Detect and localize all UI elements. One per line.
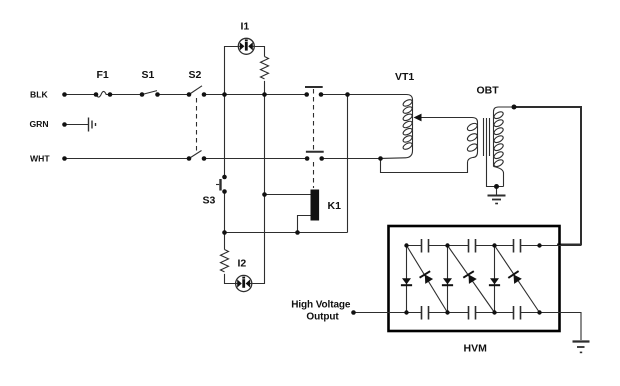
svg-text:Output: Output bbox=[306, 312, 339, 323]
node F1 left bbox=[94, 92, 99, 97]
node S1 left bbox=[140, 92, 145, 97]
autotransformer VT1 top lead bbox=[407, 95, 413, 101]
wire I1 right to resistor bbox=[255, 47, 265, 57]
capacitor C-top1 bbox=[422, 239, 429, 253]
ground OBT stub bbox=[496, 187, 498, 196]
wire BLK fuse to S1 bbox=[110, 94, 142, 96]
node I1 right junction bbox=[262, 92, 267, 97]
wire diagonal 1 bbox=[407, 246, 448, 313]
diode D5 vertical bbox=[490, 278, 499, 284]
resistor R-I2 bbox=[221, 250, 229, 272]
capacitor C-bot1 bbox=[422, 306, 429, 320]
node contact B left bbox=[305, 156, 310, 161]
ground GRN chassis bbox=[88, 118, 90, 132]
autotransformer VT1 axis bbox=[412, 100, 414, 151]
wire GRN lead bbox=[65, 124, 89, 126]
diode D6 diagonal bbox=[508, 271, 523, 285]
wire WHT after contact to VT1 bbox=[322, 158, 380, 160]
diode D4 diagonal bbox=[463, 271, 478, 284]
diode D1 vertical bbox=[402, 278, 411, 284]
wire resistor to BLK bbox=[264, 81, 266, 95]
wire BLK after contact bbox=[321, 94, 407, 96]
node bus left bbox=[222, 230, 227, 235]
node S1 right bbox=[155, 92, 160, 97]
wire resistor to I2 lamp bbox=[225, 274, 236, 284]
svg-text:F1: F1 bbox=[97, 69, 109, 81]
wire HVM top rail bbox=[407, 245, 582, 247]
capacitor C-top3 bbox=[514, 239, 521, 253]
wire HVM bottom rail to ground bbox=[540, 313, 582, 341]
ground HV return bars bbox=[573, 340, 590, 342]
node rail top 2 bbox=[445, 243, 449, 247]
wire HV feed thick from OBT to multiplier bbox=[514, 107, 581, 245]
wire S3 column to resistor I2 bbox=[224, 233, 226, 250]
svg-text:I2: I2 bbox=[238, 258, 247, 270]
node rail bottom 3 bbox=[492, 310, 496, 314]
wire diode column 2 bbox=[447, 246, 449, 313]
wiper arrow VT1 bbox=[414, 114, 422, 122]
wire K1 coil bottom feed bbox=[298, 216, 311, 233]
relay contact K1-B bar bbox=[306, 151, 324, 153]
node rail bottom 1 bbox=[404, 310, 408, 314]
lamp I2 bbox=[235, 275, 252, 291]
node HV output terminal bbox=[351, 310, 356, 315]
transformer OBT secondary bottom lead bbox=[494, 167, 504, 187]
autotransformer VT1 bottom lead bbox=[381, 151, 413, 159]
node BLK input bbox=[62, 92, 67, 97]
transformer OBT primary loops bbox=[466, 122, 478, 132]
svg-text:S3: S3 bbox=[203, 194, 216, 206]
transformer OBT primary bottom curve bbox=[473, 152, 478, 158]
node bus riser top bbox=[345, 92, 350, 97]
wire S3 column from BLK bbox=[224, 95, 226, 178]
wire bus riser to BLK bbox=[347, 95, 349, 233]
switch S2 gang linkage (dashed) bbox=[196, 98, 198, 154]
wire WHT segment left to S2b bbox=[65, 158, 190, 160]
node VT1 bottom bbox=[378, 156, 383, 161]
wire diode column 1 bbox=[406, 246, 408, 313]
capacitor C-bot3 bbox=[514, 306, 521, 320]
capacitor C-top2 bbox=[469, 239, 476, 253]
node contact B right bbox=[319, 156, 324, 161]
switch S1 bbox=[142, 91, 157, 95]
fuse F1 bbox=[96, 91, 110, 97]
pushbutton S3 bbox=[219, 179, 221, 191]
svg-text:WHT: WHT bbox=[30, 154, 50, 164]
relay K1 linkage (dashed) bbox=[313, 89, 315, 150]
node WHT input bbox=[62, 156, 67, 161]
node S2b right bbox=[202, 156, 207, 161]
autotransformer VT1 winding loops bbox=[402, 98, 413, 107]
wire BLK S1 to S2 bbox=[158, 94, 190, 96]
node S3 bottom bbox=[222, 189, 227, 194]
wire OBT core/shield to ground bbox=[487, 156, 504, 187]
svg-text:HVM: HVM bbox=[464, 343, 488, 355]
transformer OBT primary axis bbox=[477, 122, 479, 152]
node S3 top bbox=[222, 175, 227, 180]
node rail top 3 bbox=[492, 243, 496, 247]
svg-text:BLK: BLK bbox=[30, 90, 48, 100]
node OBT ground bbox=[494, 184, 499, 189]
wire diode column 3 bbox=[494, 246, 496, 313]
node K1 coil top bbox=[262, 192, 267, 197]
transformer OBT secondary top lead bbox=[494, 107, 515, 112]
svg-text:S2: S2 bbox=[189, 69, 202, 81]
svg-text:VT1: VT1 bbox=[395, 71, 414, 83]
transformer OBT core bbox=[483, 118, 485, 156]
svg-text:I1: I1 bbox=[241, 21, 250, 33]
wire WHT under-route to OBT primary bottom bbox=[381, 158, 473, 173]
node rail bottom 2 bbox=[445, 310, 449, 314]
diode D2 diagonal bbox=[420, 271, 435, 284]
node F1 right bbox=[108, 92, 113, 97]
svg-text:S1: S1 bbox=[142, 69, 155, 81]
svg-text:GRN: GRN bbox=[30, 119, 49, 129]
node S2a right bbox=[202, 92, 207, 97]
relay contact K1-A bar bbox=[305, 86, 323, 88]
ground OBT bars bbox=[488, 195, 506, 197]
node OBT secondary top bbox=[512, 105, 517, 110]
switch S2 pole B lever bbox=[189, 151, 202, 159]
transformer OBT primary top curve bbox=[472, 118, 478, 123]
wire K1 coil top feed bbox=[265, 194, 311, 196]
node K1 coil bottom bbox=[295, 230, 300, 235]
node GRN input bbox=[62, 122, 67, 127]
svg-text:K1: K1 bbox=[328, 200, 342, 212]
multiplier HVM box bbox=[389, 226, 560, 331]
switch S2 pole A lever bbox=[189, 86, 202, 95]
wire I2 lamp right riser bbox=[252, 95, 264, 284]
wire HVM bottom rail bbox=[354, 312, 582, 314]
wire I1 left drop bbox=[225, 47, 238, 95]
node rail top 4 bbox=[537, 243, 541, 247]
node contact A right bbox=[319, 92, 324, 97]
node rail bottom 4 bbox=[537, 310, 541, 314]
relay K1 coil bbox=[311, 190, 320, 221]
wire BLK segment left to fuse bbox=[65, 94, 97, 96]
wire relay-control bus bbox=[225, 232, 348, 234]
node S2b left bbox=[187, 156, 192, 161]
svg-text:High Voltage: High Voltage bbox=[291, 300, 351, 311]
resistor R-I1 bbox=[261, 57, 269, 79]
diode D3 vertical bbox=[443, 278, 452, 284]
wire S3 to junction line bbox=[224, 192, 226, 233]
node S2a left bbox=[187, 92, 192, 97]
transformer OBT secondary axis bbox=[493, 112, 495, 167]
wire BLK S2 to relay contact bbox=[204, 94, 307, 96]
node I1 left junction bbox=[222, 92, 227, 97]
wire diagonal 3 bbox=[495, 246, 540, 313]
lamp I1 bbox=[238, 38, 255, 54]
wire WHT S2b to relay contact bbox=[204, 158, 307, 160]
wire VT1 wiper to OBT primary bbox=[421, 117, 472, 119]
node contact A left bbox=[304, 92, 309, 97]
wire diagonal 2 bbox=[448, 246, 495, 313]
node rail top 1 bbox=[404, 243, 408, 247]
svg-text:OBT: OBT bbox=[477, 84, 500, 96]
capacitor C-bot2 bbox=[469, 306, 476, 320]
transformer OBT secondary loops bbox=[493, 110, 504, 119]
